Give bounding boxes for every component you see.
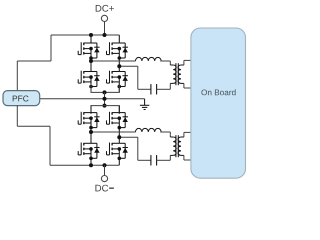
wire phase B down to resonant capacitor xyxy=(137,137,139,160)
capacitor Cr1 (upper resonant capacitor) xyxy=(151,84,157,94)
terminal DC- xyxy=(101,176,107,182)
wire PFC top lead xyxy=(16,61,18,91)
wire top rail (DC+ bus) xyxy=(51,34,119,36)
ground xyxy=(140,99,149,110)
label DC- xyxy=(95,185,108,192)
transistor Q3 (upper bridge, left leg bottom, with body diode) xyxy=(78,61,99,92)
wire phase A upper to resonant inductor xyxy=(91,60,136,62)
transformer T1 (upper isolation transformer) xyxy=(170,60,191,89)
label DC+ xyxy=(96,5,114,12)
transistor Q4 (upper bridge, right leg bottom, with body diode) xyxy=(107,61,128,92)
wire capacitor Cr1 left lead xyxy=(138,88,151,90)
wire phase A lower to resonant inductor xyxy=(91,131,136,133)
wire PFC output mid rail xyxy=(40,98,145,100)
wire phase B down to resonant capacitor xyxy=(137,66,139,89)
node top rail / DC+ xyxy=(103,33,107,37)
wire DC+ rail to PFC: down xyxy=(50,35,52,61)
transistor Q2 (upper bridge, right leg top, with body diode) xyxy=(107,35,128,61)
block On Board xyxy=(191,28,246,178)
inductor Lr1 (upper resonant inductor) xyxy=(136,57,162,61)
wire PFC to DC- rail: down xyxy=(49,126,51,165)
label On Board xyxy=(201,89,235,95)
inductor Lr2 (lower resonant inductor) xyxy=(136,128,162,132)
node lower bridge top rail / link xyxy=(103,104,107,108)
wire PFC to DC- rail: across xyxy=(17,125,50,127)
wire DC+ lead xyxy=(104,22,106,35)
transistor Q5 (lower bridge, left leg top, with body diode) xyxy=(78,106,99,132)
wire mid-bus link xyxy=(104,92,106,105)
transistor Q6 (lower bridge, right leg top, with body diode) xyxy=(107,106,128,132)
label PFC xyxy=(13,96,29,102)
node mid rail / link xyxy=(103,97,107,101)
wire capacitor Cr1 right lead xyxy=(157,88,171,90)
wire phase B upper tap xyxy=(119,65,138,67)
wire DC+ rail to PFC: across xyxy=(17,60,51,62)
transistor Q1 (upper bridge, left leg top, with body diode) xyxy=(78,35,99,61)
node top rail / left leg xyxy=(89,33,93,37)
transistor Q8 (lower bridge, right leg bottom, with body diode) xyxy=(107,132,128,165)
wire DC- lead xyxy=(104,165,106,175)
wire capacitor Cr2 left lead xyxy=(138,159,151,161)
node phase B upper xyxy=(117,64,121,68)
wire phase B lower tap xyxy=(119,136,138,138)
transistor Q7 (lower bridge, left leg bottom, with body diode) xyxy=(78,132,99,165)
wire upper bridge bottom rail xyxy=(91,84,119,92)
wire lower bridge bottom rail (DC- bus) xyxy=(50,164,119,166)
transformer T2 (lower isolation transformer) xyxy=(170,132,191,160)
block PFC xyxy=(3,91,40,106)
capacitor Cr2 (lower resonant capacitor) xyxy=(151,155,157,165)
node phase B lower xyxy=(117,135,121,139)
node bottom rail / left leg xyxy=(89,163,93,167)
node bottom rail / DC- xyxy=(103,163,107,167)
wire capacitor Cr2 right lead xyxy=(157,159,171,161)
wire PFC bottom lead xyxy=(16,106,18,127)
node upper bottom rail / mid link xyxy=(103,90,107,94)
wire inductor to transformer T2 xyxy=(160,131,170,133)
wire inductor to transformer T1 xyxy=(160,60,170,62)
node phase A upper xyxy=(89,59,93,63)
terminal DC+ xyxy=(101,15,107,21)
wire lower bridge top rail xyxy=(91,106,119,114)
node phase A lower xyxy=(89,130,93,134)
